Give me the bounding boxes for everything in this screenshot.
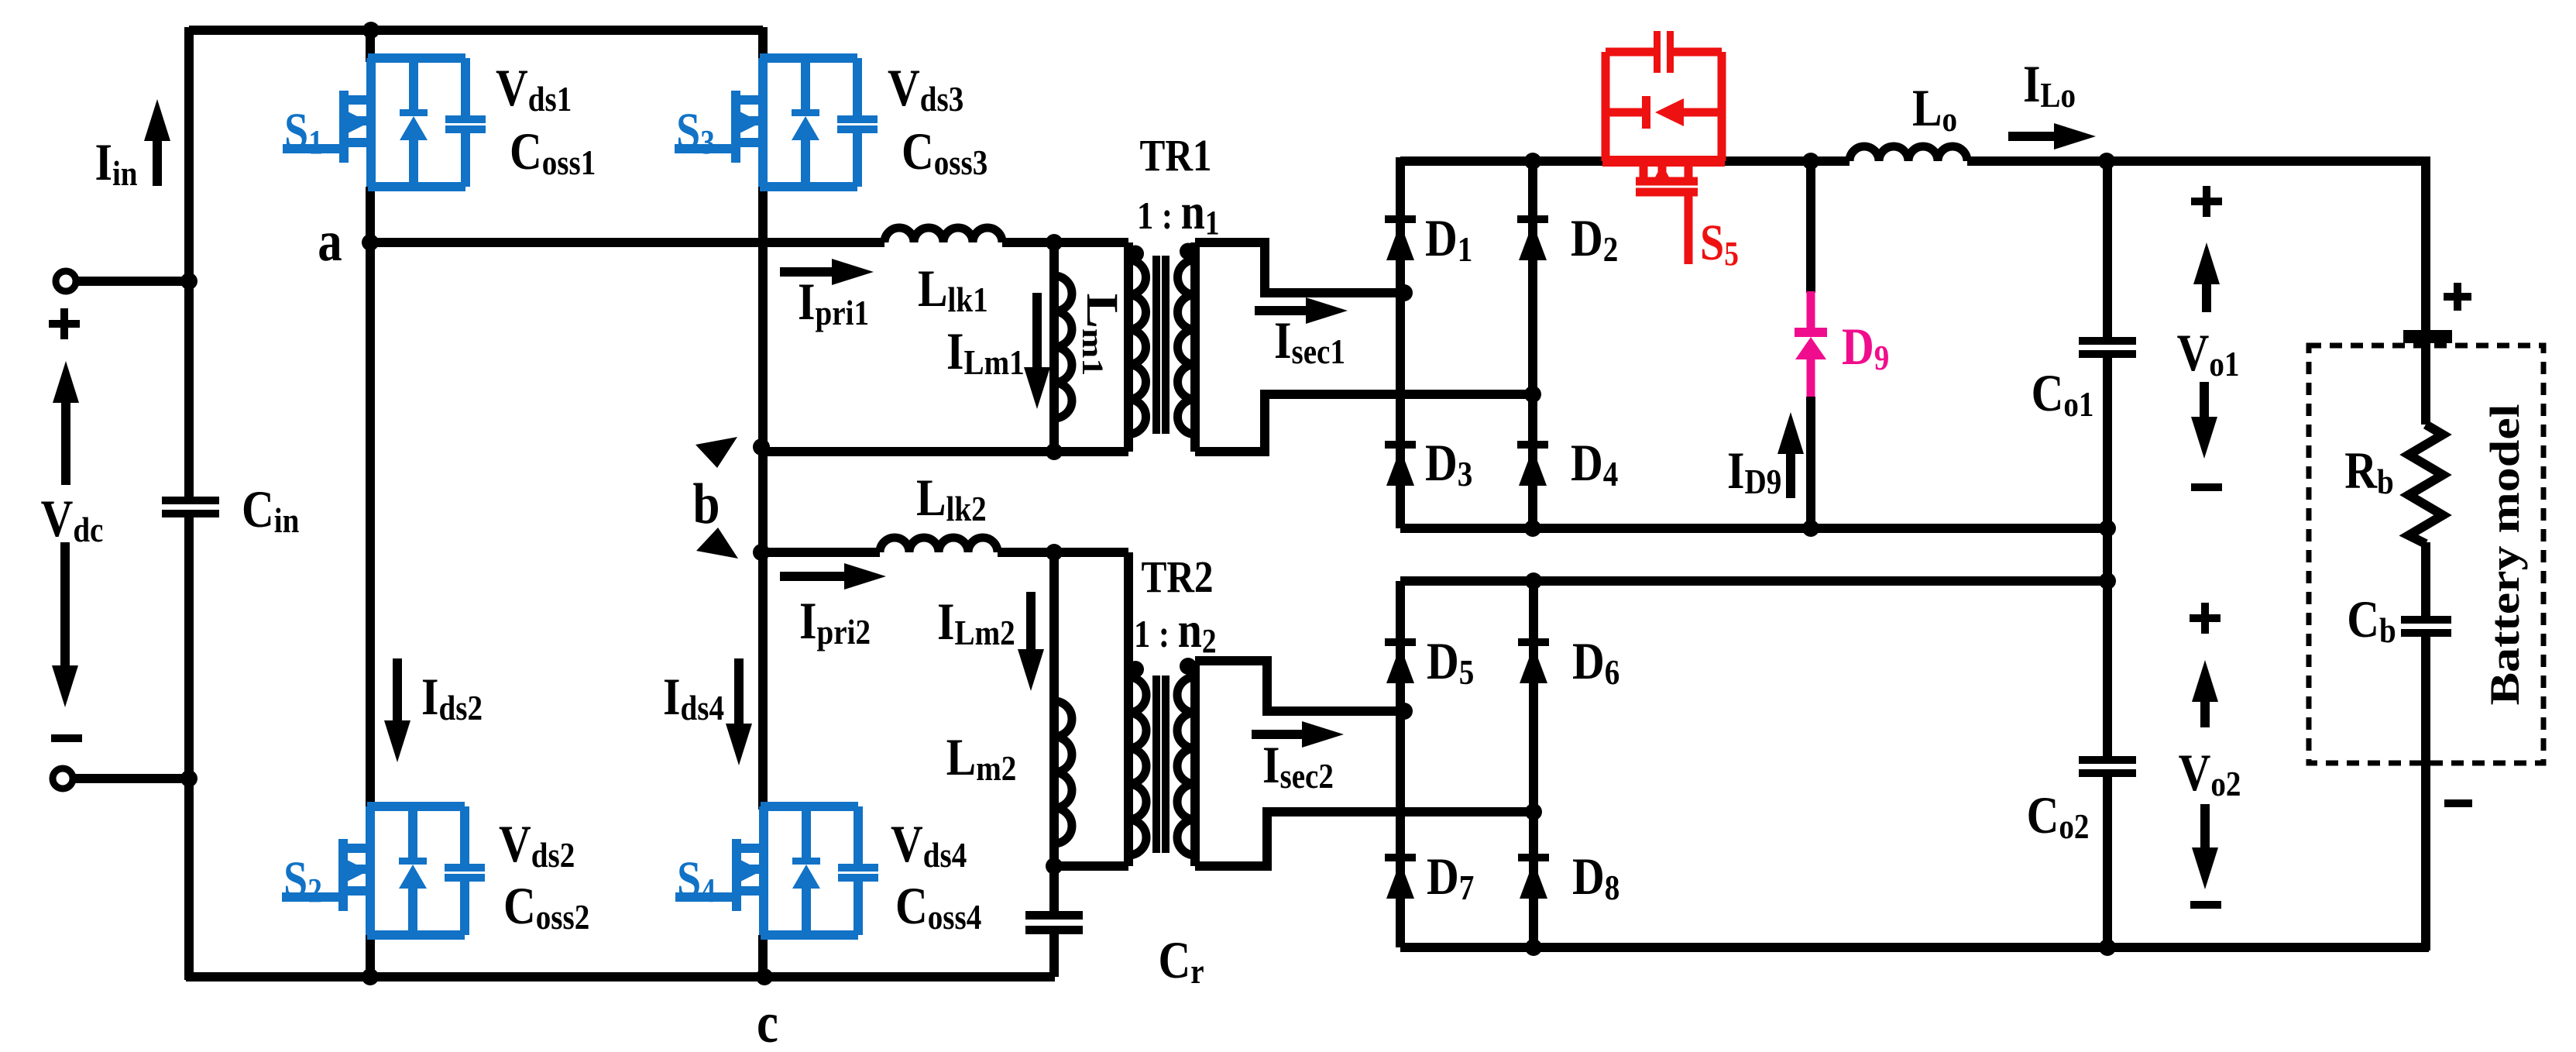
svg-text:TR2: TR2 bbox=[1141, 552, 1213, 602]
capacitor Co2 bbox=[2027, 756, 2136, 847]
wire: leg1 drain S1 bbox=[366, 27, 375, 62]
node: top bus junction bbox=[362, 22, 380, 39]
diode D4 bbox=[1517, 434, 1618, 494]
transistor S1 (with body diode and Coss1) bbox=[283, 58, 486, 187]
svg-text:Battery model: Battery model bbox=[2481, 404, 2527, 705]
wire: node b to Llk2 bbox=[761, 548, 880, 557]
arrow Iin bbox=[94, 99, 170, 194]
wire: TR1 sec top bbox=[1195, 242, 1404, 293]
node: Lm1 bottom bbox=[1046, 443, 1063, 460]
node: D2 top bbox=[1524, 153, 1541, 170]
svg-text:a: a bbox=[318, 209, 342, 273]
wire: left rail upper bbox=[184, 27, 194, 497]
wire: top bus bbox=[189, 26, 763, 35]
wire: bottom bus bbox=[186, 972, 1055, 982]
node a bbox=[318, 209, 379, 273]
label Vo1 bbox=[2177, 186, 2240, 491]
label Coss1 bbox=[510, 122, 596, 183]
wire: node a to Llk1 bbox=[370, 238, 884, 247]
wire: bridge2 left leg bbox=[1396, 581, 1405, 947]
transistor S3 bbox=[675, 58, 878, 187]
arrow Vdc down bbox=[52, 542, 78, 707]
wire: D9 upper bbox=[1806, 158, 1815, 293]
transistor S4 bbox=[675, 806, 878, 935]
arrow Ids4 bbox=[663, 658, 752, 765]
node: out mid1 bbox=[2099, 520, 2116, 537]
battery model box bbox=[2309, 346, 2543, 763]
wire: leg1 source S2 bbox=[366, 935, 375, 980]
wire: bridge1 bottom rail bbox=[1400, 524, 2111, 533]
label Battery model bbox=[2481, 404, 2527, 705]
wire: battery mid bbox=[2421, 542, 2430, 616]
wire: left rail lower bbox=[184, 517, 194, 980]
diode D9 (pink) bbox=[1795, 291, 1889, 397]
node: Lm1 top bbox=[1046, 234, 1063, 251]
node: sec1+ input bbox=[1396, 284, 1413, 301]
label Coss2 bbox=[503, 877, 589, 937]
svg-text:b: b bbox=[693, 472, 720, 535]
arrow Ipri2 bbox=[780, 563, 886, 652]
wire: rectifier top rail bbox=[1400, 156, 2429, 166]
node c bbox=[756, 968, 778, 1052]
wire: Llk2 to TR2 bbox=[998, 548, 1128, 557]
wire: battery top bbox=[2107, 161, 2426, 330]
inductor Lm2 bbox=[946, 550, 1072, 866]
node: sec2+ input bbox=[1396, 703, 1413, 720]
transistor S2 bbox=[282, 806, 485, 935]
node: Lm2 top bbox=[1046, 544, 1063, 561]
node: D9 top bbox=[1802, 153, 1819, 170]
wire: output vertical upper bbox=[2103, 158, 2112, 337]
svg-text:TR1: TR1 bbox=[1139, 130, 1211, 180]
wire: TR1 sec bottom bbox=[1195, 394, 1536, 452]
arrow Vdc up bbox=[53, 361, 79, 485]
node b lower bbox=[753, 544, 770, 561]
diode D2 bbox=[1517, 209, 1618, 270]
transformer TR1 bbox=[1127, 130, 1220, 452]
node: leg1 bottom bbox=[362, 968, 379, 985]
node b upper bbox=[753, 438, 770, 456]
capacitor Co1 bbox=[2032, 337, 2136, 425]
label Vds2 bbox=[499, 815, 575, 875]
label Vdc bbox=[41, 490, 104, 550]
diode D6 bbox=[1518, 632, 1619, 693]
wire: battery lower bbox=[2421, 637, 2430, 951]
node: input+ junction bbox=[180, 273, 197, 290]
capacitor Cr bbox=[1025, 863, 1204, 992]
label Vds3 bbox=[888, 59, 963, 119]
wire: TR2 sec bottom bbox=[1195, 812, 1537, 866]
arrow Ipri1 bbox=[780, 259, 874, 333]
capacitor Cin bbox=[162, 480, 300, 541]
node: out bottom bbox=[2099, 939, 2116, 956]
node: out mid2 bbox=[2099, 572, 2116, 590]
inductor Lo bbox=[1850, 79, 1967, 161]
node: D8 bottom bbox=[1525, 939, 1542, 956]
wire: battery upper bbox=[2421, 343, 2430, 425]
label Vo2 bbox=[2179, 603, 2241, 909]
label Coss4 bbox=[895, 877, 981, 937]
wire: leg2 drain S3 bbox=[758, 27, 768, 62]
transformer TR2 bbox=[1127, 552, 1217, 866]
wire: TR2 primary return bbox=[1054, 861, 1128, 871]
inductor Llk2 bbox=[880, 469, 998, 552]
diode D5 bbox=[1385, 632, 1474, 693]
arrow Isec2 bbox=[1252, 721, 1344, 796]
wire: bridge1 left leg bbox=[1396, 157, 1405, 528]
arrow Ids2 bbox=[384, 658, 483, 762]
wire: leg2 mid bbox=[758, 187, 768, 810]
transistor S5 (red) bbox=[1602, 31, 1739, 273]
svg-text:c: c bbox=[757, 991, 778, 1052]
wire: bridge2 top rail bbox=[1400, 576, 2111, 586]
node: D6 top bbox=[1525, 572, 1542, 590]
battery plate bbox=[2403, 283, 2471, 343]
wire: bridge2 bottom rail bbox=[1400, 943, 2429, 952]
label battery minus bbox=[2444, 799, 2472, 807]
arrow ILo bbox=[2008, 55, 2096, 150]
inductor Llk1 bbox=[884, 228, 1002, 320]
wire: bridge2 right leg bbox=[1529, 581, 1538, 947]
wire: D9 lower bbox=[1806, 397, 1815, 528]
label Vds1 bbox=[496, 59, 572, 119]
label b bbox=[693, 437, 738, 559]
diode D3 bbox=[1385, 434, 1472, 494]
terminal + (top-left) bbox=[49, 271, 189, 339]
wire: Llk1 to TR1 bbox=[1002, 238, 1128, 247]
label Coss3 bbox=[902, 122, 987, 183]
capacitor Cb bbox=[2347, 590, 2451, 651]
label Vds4 bbox=[891, 815, 967, 875]
node: D4 bottom bbox=[1524, 520, 1541, 537]
node: sec1- input bbox=[1524, 386, 1541, 403]
wire: bridge1 right leg bbox=[1528, 157, 1537, 528]
arrow ID9 bbox=[1727, 412, 1804, 502]
inductor Lm1 bbox=[1054, 240, 1072, 452]
diode D1 bbox=[1385, 209, 1472, 270]
wire: TR1 primary return bbox=[761, 447, 1128, 456]
resistor Rb bbox=[2344, 425, 2443, 544]
label Lm1 (rotated) bbox=[1076, 294, 1127, 376]
node: Lm2 bottom bbox=[1046, 858, 1063, 875]
diode D7 bbox=[1385, 847, 1474, 908]
wire: leg1 mid bbox=[366, 187, 375, 810]
arrow ILm2 bbox=[937, 592, 1044, 691]
wire: TR2 sec top bbox=[1195, 661, 1408, 711]
arrow Isec1 bbox=[1255, 297, 1348, 372]
wire: output vertical lower bbox=[2103, 777, 2112, 951]
node: input- junction bbox=[180, 770, 197, 787]
wire: leg2 source S4 bbox=[758, 935, 768, 980]
diode D8 bbox=[1518, 847, 1619, 908]
node: Lo out bbox=[2098, 153, 2115, 170]
terminal - (bottom-left) bbox=[51, 734, 189, 789]
arrow ILm1 bbox=[946, 293, 1050, 409]
wire: output vertical mid bbox=[2103, 358, 2112, 756]
node: sec2- input bbox=[1525, 803, 1542, 820]
node: D9 bottom bbox=[1802, 520, 1819, 537]
